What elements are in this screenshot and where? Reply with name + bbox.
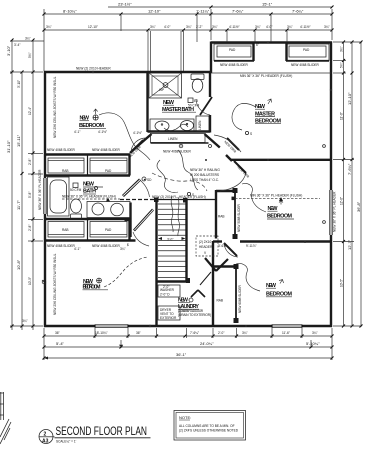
svg-text:NEW 6068 SLIDER: NEW 6068 SLIDER [238,284,242,313]
svg-text:5¼": 5¼" [28,52,32,58]
detector master [245,131,252,136]
wall closet row2 bottom [44,239,136,241]
svg-text:7'-6¼": 7'-6¼" [190,331,199,335]
svg-text:50 CFM: 50 CFM [70,188,82,192]
svg-text:NEW 4068 SLIDER: NEW 4068 SLIDER [47,244,76,248]
room label NEW BATH [70,182,103,195]
svg-text:3'-6⅞": 3'-6⅞" [218,244,227,248]
joist note bedroom1 [53,76,57,138]
svg-text:3'-10": 3'-10" [6,45,11,56]
svg-text:HEADER: HEADER [199,245,213,249]
window right wall with header note [333,191,337,232]
svg-text:24'-0¼": 24'-0¼" [200,341,214,346]
svg-text:SD: SD [147,178,152,182]
stairs treads [158,204,186,278]
svg-text:3¼": 3¼" [324,25,330,29]
wall closet row2 right cap [128,219,130,241]
wall exterior top-right section [211,41,332,43]
svg-text:3¼": 3¼" [22,319,28,323]
svg-text:LESS THAN 4" O.C.: LESS THAN 4" O.C. [190,178,219,182]
svg-text:4'-1½": 4'-1½" [133,131,142,135]
svg-text:11'-0": 11'-0" [340,112,344,120]
svg-text:NOTE:: NOTE: [179,415,191,420]
wall closet row1 bottom [44,174,130,176]
wall exterior left [44,71,46,327]
door bedroom3 entry [224,243,238,257]
room label NEW BEDROOM bottom-left [83,278,109,290]
closet master left with pad [214,43,254,61]
wall corridor west [129,203,131,238]
svg-text:6": 6" [256,43,259,47]
linen hall closet [151,134,209,144]
svg-text:EXTERIOR: EXTERIOR [160,316,177,320]
door left bath [123,180,150,198]
door bedroom1 SE corner [131,138,146,152]
svg-text:4'-1": 4'-1" [74,247,80,251]
fan symbol master bedroom [268,99,272,104]
bifold doors laundry [191,290,205,297]
wall closet bedroom2 top [216,190,233,192]
wall bedroom1/bath divider [146,72,148,132]
svg-text:15'-11": 15'-11" [16,134,21,147]
svg-text:36": 36" [136,331,141,335]
wall diagonal to master bedroom south [226,155,232,161]
wall master bath bottom [148,130,211,132]
small labels left bottom [14,43,28,323]
door size label bedroom1 [128,145,142,159]
svg-text:3¼": 3¼" [212,25,218,29]
svg-text:2: 2 [44,432,47,438]
closet bedroom3 slider [213,264,242,323]
svg-text:8'-10¼": 8'-10¼" [63,9,77,14]
closet row1 right PAD [90,158,127,173]
outlet symbol left wall [42,280,46,284]
header flush beam master bedroom [211,73,331,78]
svg-text:NEW 36" X 36" PL HEADER: NEW 36" X 36" PL HEADER [333,191,337,232]
outlet symbol bedroom3 [323,145,326,148]
gap dim master closets [256,43,259,47]
wall exterior bottom [44,325,332,327]
svg-text:RAB: RAB [217,299,224,303]
bathtub [48,177,70,216]
leader squiggle bedroom4 [104,257,148,287]
linen closet master bath [196,116,209,132]
dim row3 [43,25,334,32]
vanity left bath [87,202,130,218]
svg-text:(DRAIN TO EXTERIOR): (DRAIN TO EXTERIOR) [178,313,211,317]
extension lines bottom [44,328,332,360]
room label NEW MASTER BEDROOM [255,104,282,124]
note box [174,411,246,441]
header flush label center [152,195,206,199]
wall exterior top-left wing [44,71,211,73]
wall connector top step [210,42,212,74]
svg-text:2'-8": 2'-8" [28,225,32,231]
stairs width dim [158,237,186,242]
door size label master bedroom [223,140,237,154]
svg-text:3¼": 3¼" [46,25,52,29]
fan symbol bedroom1 [93,109,98,120]
svg-text:12'-7": 12'-7" [347,239,352,250]
leader dashed arc hall [152,173,207,191]
svg-text:12'-10": 12'-10" [148,9,161,14]
svg-text:7'-6¼": 7'-6¼" [292,9,304,14]
svg-text:4'-0": 4'-0" [164,25,170,29]
svg-text:NEW 4068 SLIDER: NEW 4068 SLIDER [92,148,121,152]
vanity master bath [150,119,194,132]
toilet master bath [191,74,204,92]
leader squiggle bedroom2 [242,183,266,212]
svg-text:3¼": 3¼" [255,25,261,29]
svg-text:12'-0": 12'-0" [340,197,344,205]
svg-text:WP: WP [159,88,164,92]
header note top-left wall [76,67,111,71]
dim col left outer [6,39,14,331]
room label NEW LAUNDRY [178,298,211,317]
closet row2 right PAD [90,222,127,238]
wall master bedroom south [231,159,332,161]
svg-text:36": 36" [55,331,60,335]
svg-text:5'-8": 5'-8" [28,192,32,198]
header note left wall [38,169,42,210]
window bottom-right bedroom [272,325,302,328]
room label NEW BEDROOM center-right [267,201,294,220]
header flush note left bath [62,195,120,202]
svg-text:5'-4": 5'-4" [56,341,65,346]
svg-text:3'-0": 3'-0" [167,238,173,242]
svg-text:NEW 4068 SLIDER: NEW 4068 SLIDER [291,63,320,67]
dim row bottom3 [43,352,334,360]
svg-text:10'-5": 10'-5" [28,277,32,285]
svg-text:3'-4": 3'-4" [14,43,20,47]
outlet dots on walls [92,41,332,327]
slider labels row2 [47,244,121,248]
svg-text:4'-11½": 4'-11½" [229,25,240,29]
svg-text:PAD: PAD [229,48,236,52]
svg-text:3¼": 3¼" [150,25,156,29]
svg-text:1'-11¼": 1'-11¼" [196,9,210,14]
svg-text:3¼": 3¼" [25,37,31,41]
svg-text:3¼": 3¼" [186,25,192,29]
svg-text:S: S [250,132,252,136]
dim bedroom4 top [74,247,126,251]
svg-text:S: S [192,193,194,197]
svg-text:4'-1": 4'-1" [74,130,80,134]
smoke detector hall [179,144,183,148]
wall stairwell left [155,200,157,328]
svg-text:SECOND FLOOR PLAN: SECOND FLOOR PLAN [56,424,148,438]
wall hall funnel left diagonal [130,134,152,153]
svg-text:NEW (2) 2X10 FL. HEADER (FLUSH: NEW (2) 2X10 FL. HEADER (FLUSH) [152,195,206,199]
wall laundry right [212,241,214,327]
svg-text:18'-10¼": 18'-10¼" [95,331,108,335]
wall closet row2 divider [87,219,89,241]
svg-text:31'-10": 31'-10" [6,140,11,153]
leader squiggle hall 2 [178,150,198,190]
dim col left mid [16,71,24,331]
svg-text:NEW 4068 SLIDER: NEW 4068 SLIDER [47,148,76,152]
extension lines left [10,41,44,326]
dim bedroom3 top [218,244,257,248]
door size label bedroom2 [236,165,250,179]
window right wall bedroom2 [330,190,333,235]
dim row bottom2 [43,341,334,349]
slider label hall linen [163,150,192,154]
svg-text:PAD: PAD [105,169,112,173]
svg-text:LINEN: LINEN [198,120,202,130]
svg-text:12'-10": 12'-10" [88,25,98,29]
wall closet row2 top [44,218,130,220]
wall corridor stub [125,219,132,221]
dim row1 top [108,2,334,9]
svg-text:(2) 2X4'S UNLESS OTHERWISE NOT: (2) 2X4'S UNLESS OTHERWISE NOTED [179,429,239,433]
svg-text:2'-0" D: 2'-0" D [160,293,170,297]
svg-text:7'-6¼": 7'-6¼" [347,163,352,175]
wall closet row1 divider [87,155,89,176]
wall closet bedroom2 left [215,190,217,239]
svg-text:10'-5": 10'-5" [340,279,344,287]
small label left top [25,37,31,41]
leader squiggle bedroom1 [99,113,150,160]
dim laundry width [163,285,169,289]
svg-text:NEW 36" X 36" PL HEADER: NEW 36" X 36" PL HEADER [38,169,42,210]
leader squiggle master bedroom [232,103,256,130]
svg-text:3¼": 3¼" [312,331,318,335]
room label NEW MASTER BATH [162,100,196,113]
svg-text:5'-10¼": 5'-10¼" [306,341,320,346]
svg-text:(2) 2X10: (2) 2X10 [199,240,211,244]
wall closet row1 top [44,153,130,155]
svg-text:12'-4": 12'-4" [28,107,32,115]
dim col right inner [340,41,346,328]
room label NEW BEDROOM bottom-right [266,280,293,298]
window bottom-left bedroom [95,325,128,328]
svg-text:36'-8": 36'-8" [356,201,361,212]
svg-text:NEW 2X6 CEILING JOISTS W/ R30: NEW 2X6 CEILING JOISTS W/ R30 INSUL [53,76,57,138]
stairs stringer [171,196,179,236]
svg-text:4'-0": 4'-0" [266,25,272,29]
svg-text:NEW 5068 SLIDER: NEW 5068 SLIDER [237,203,241,232]
svg-text:LINEN: LINEN [168,137,178,141]
header dashed box [196,236,218,256]
svg-text:PAD: PAD [105,228,112,232]
window left wall bath [44,178,47,214]
svg-text:3'-10": 3'-10" [17,80,21,88]
wall closet row1 right cap [128,155,130,176]
svg-text:NEW 36" H RAILING: NEW 36" H RAILING [190,168,220,172]
dim row bottom1 [43,331,334,338]
leader squiggle bedroom3 [236,263,260,291]
dim col right outer [356,41,363,328]
svg-text:NEW 36" X 36" PL HEADER (FLUSH: NEW 36" X 36" PL HEADER (FLUSH) [62,195,116,199]
svg-text:NEW: NEW [83,182,95,188]
svg-text:ALL COLUMNS ARE TO BE A MIN. O: ALL COLUMNS ARE TO BE A MIN. OF [179,424,235,428]
svg-text:PAD: PAD [303,48,310,52]
wall stairwell right [185,200,187,282]
svg-text:NEW (2) 2X10 HEADER: NEW (2) 2X10 HEADER [76,67,111,71]
closet bedroom2 slider [218,188,241,239]
door bedroom2 entry [220,161,246,191]
wall stairwell top header [120,199,216,201]
dim bedroom1 internal [74,130,107,134]
wall master bath right [209,73,211,133]
wall laundry top [157,278,191,283]
dim col left inner [28,39,35,331]
svg-text:NEW 4068 SLIDER: NEW 4068 SLIDER [163,150,192,154]
svg-text:NEW 4068 SLIDER: NEW 4068 SLIDER [220,63,249,67]
shower master bath [149,73,182,98]
dim bedroom1 door [133,131,142,135]
svg-text:3¼": 3¼" [120,247,126,251]
svg-text:11'-7": 11'-7" [16,200,21,210]
svg-text:12'-10": 12'-10" [347,92,352,105]
detector hall lower [187,192,194,197]
room label NEW BEDROOM top-left [79,116,106,130]
wall bedroom2/3 divider (right) [213,240,332,242]
closet master right with pad [286,43,329,61]
svg-text:2'-0": 2'-0" [163,285,169,289]
svg-text:2'-8": 2'-8" [28,159,32,165]
detector bath [94,186,97,189]
exhaust fan note master bath [188,98,200,108]
slider label master closet left [220,63,249,67]
svg-text:10'-8": 10'-8" [16,259,21,270]
slider labels row1 [47,148,121,152]
wall exterior right [330,42,332,328]
door master bedroom entry [214,135,241,152]
slider label master closet right [291,63,320,67]
stair newel post [154,198,188,203]
closet row2 left RAB [48,222,84,238]
svg-text:7'-6¼": 7'-6¼" [232,9,244,14]
svg-text:RAB: RAB [218,215,225,219]
svg-text:W 200 BALUSTERS: W 200 BALUSTERS [190,173,219,177]
svg-text:MIN 36" X 36" PL HEADER (FLUSH: MIN 36" X 36" PL HEADER (FLUSH) [250,193,302,197]
svg-text:A3: A3 [42,439,49,445]
svg-text:11'-6": 11'-6" [282,331,290,335]
title circle 2/A3 [39,430,55,445]
header dashed bedroom2 [232,193,321,201]
svg-text:4'-11½": 4'-11½" [300,25,311,29]
door bottom-left bedroom [127,210,153,248]
wall hall funnel right diagonal [205,134,220,148]
outlet hall linen [209,145,212,148]
leader squiggle master vanity [164,124,188,130]
dryer box [158,306,180,320]
smoke detector SD corridor [142,177,152,182]
leader squiggle hall 1 [157,160,178,193]
svg-text:RAB: RAB [62,228,69,232]
extension lines right [333,42,362,326]
door master bath [196,97,212,115]
railing note [190,168,220,182]
svg-text:MIN 36" X 36" PL HEADER (FLUSH: MIN 36" X 36" PL HEADER (FLUSH) [240,74,292,78]
svg-text:4'-1½": 4'-1½" [98,130,107,134]
svg-text:5¼": 5¼" [340,62,344,68]
svg-text:9'-11⅞": 9'-11⅞" [246,244,257,248]
title text SECOND FLOOR PLAN [55,424,151,444]
dim row2 [43,9,334,16]
svg-text:15'-1": 15'-1" [262,2,273,7]
dim col right mid [347,41,354,328]
washer box [158,285,180,297]
svg-text:$: $ [127,243,129,247]
fragment elevation corner [0,392,11,444]
svg-text:RAB: RAB [62,169,69,173]
bifold doors hall closet [200,258,228,285]
closet row1 left RAB [48,158,84,173]
arrow bottom row2 [44,345,123,360]
svg-text:3¼": 3¼" [287,25,293,29]
svg-text:2'-0": 2'-0" [218,331,224,335]
svg-text:SCALE¼" = 1': SCALE¼" = 1' [56,440,77,444]
joist note bedroom4 [53,253,57,315]
extension lines top [44,9,332,71]
svg-text:36'-1": 36'-1" [176,352,187,357]
svg-text:NEW 4068 SLIDER: NEW 4068 SLIDER [92,244,121,248]
svg-text:3¼": 3¼" [242,331,248,335]
svg-text:23'-1½": 23'-1½" [118,2,132,7]
svg-text:NEW 2X6 CEILING JOISTS W/ R30: NEW 2X6 CEILING JOISTS W/ R30 INSUL [53,253,57,315]
toilet left bath [71,199,82,220]
svg-text:3¼": 3¼" [340,46,344,52]
outlet symbol bedroom2 wall [323,221,326,224]
